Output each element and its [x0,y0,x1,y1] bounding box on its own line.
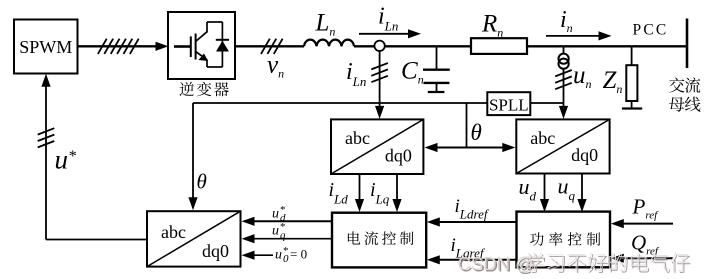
label theta mid [471,120,482,145]
label v_n [267,51,284,80]
label i_Ln measured [346,59,366,89]
watermark CSDN [458,253,691,276]
label i_Ln [378,4,398,34]
impedance Z_n [622,46,642,108]
wire i_Lq out [392,174,401,212]
svg-text:= 0: = 0 [290,247,307,262]
label u_d [519,174,537,204]
svg-text:u: u [272,224,279,239]
wire Q_ref in [611,254,673,263]
svg-text:CSDN @: CSDN @ [458,253,534,274]
svg-text:0: 0 [283,253,289,265]
node current sensor circle [374,41,384,51]
block abc/dq0 current transform [331,119,423,174]
AC bus bar [686,19,689,69]
label u* [55,145,77,175]
block SPLL [487,92,530,115]
svg-text:dq0: dq0 [202,241,229,261]
wire i_Ld out [355,174,364,212]
label inverter 逆变器 [179,82,228,97]
wire u*_q [242,234,333,243]
label i_Lq [370,179,390,207]
label L_n [315,10,336,39]
wire i_Ln measurement with ticks into abc-dq0 [371,51,388,119]
label theta left [197,170,207,194]
wire theta branch [466,103,468,148]
svg-text:dq0: dq0 [571,145,598,165]
wire u*_d [242,217,333,226]
wire i_Lqref [427,255,517,264]
block abc/dq0 voltage transform [516,119,609,173]
label Q_ref [631,231,660,258]
svg-text:dq0: dq0 [385,146,412,166]
arrow i_n direction [546,31,612,40]
svg-text:PCC: PCC [633,22,669,39]
svg-text:SPWM: SPWM [19,37,72,57]
resistor R_n [471,38,527,54]
capacitor C_n [423,46,450,92]
svg-text:u: u [275,248,282,263]
voltage sensor u_n (double circle) [559,46,569,69]
label u*_d [272,204,286,224]
label i_Lqref [451,235,486,261]
label C_n [401,58,424,87]
svg-text:abc: abc [161,222,186,242]
arrow i_Ln direction [359,29,421,38]
block SPWM [14,20,78,74]
svg-text:θ: θ [197,170,207,194]
label u_n [573,62,592,91]
block current control 电流控制 [332,213,426,268]
wire theta to dq0-abc [188,103,197,210]
wire theta distribution [193,102,564,104]
wire u_n measurement with ticks into abc-dq0 [555,69,572,119]
svg-text:abc: abc [530,128,555,148]
wire u*_0 = 0 [242,251,274,260]
wire u* feedback to SPWM [38,74,147,240]
label i_n [560,7,573,35]
label P_ref [632,195,660,222]
svg-text:u: u [272,207,279,222]
wire [354,45,375,47]
wire u_q out [577,174,586,213]
label R_n [481,11,503,40]
label i_Ld [329,179,349,207]
svg-text:q: q [280,230,286,242]
label i_Ldref [455,196,490,222]
label AC bus 交流母线 [669,77,700,111]
svg-text:θ: θ [471,120,482,145]
label u_q [558,174,576,204]
wire v_n with 3-phase ticks [235,39,304,54]
block power control 功率控制 [517,212,611,268]
wire [527,45,687,47]
wire SPWM to inverter with 6-phase ticks [78,39,169,54]
wire u_d out [540,174,549,213]
inductor L_n [304,40,354,47]
wire [385,45,471,47]
block dq0/abc inverse transform [147,211,241,266]
label u*_0 = 0 [275,245,307,265]
wire P_ref in [611,219,673,228]
label PCC [633,22,669,39]
svg-text:abc: abc [345,128,370,148]
wire i_Ldref [427,217,517,226]
svg-text:SPLL: SPLL [489,95,529,114]
wire theta to both abc-dq0 (double arrow) [425,143,516,152]
inverter U1 (IGBT with antiparallel diode) [168,12,235,79]
label Z_n [603,67,623,96]
label u*_q [272,221,286,242]
